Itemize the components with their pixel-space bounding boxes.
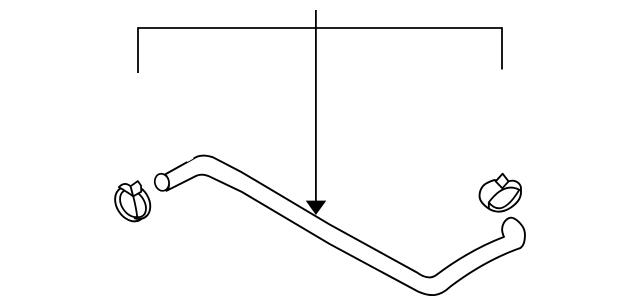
left clamp (spring hose clamp) — [109, 181, 152, 227]
left clamp left pinch tab — [119, 184, 133, 196]
left clamp right pinch tab — [131, 181, 142, 196]
right clamp band outline with pinch tab silhouette — [480, 174, 521, 212]
bracket left tick — [137, 27, 139, 73]
left clamp band front rim outer — [109, 181, 152, 227]
left clamp band gap mask — [134, 193, 151, 218]
right clamp pinch tab inner edges — [496, 181, 509, 188]
arrowhead — [306, 201, 327, 215]
highlight break on hose top line — [185, 155, 193, 162]
left clamp back rim inner arc — [138, 194, 146, 217]
right clamp band seam — [488, 202, 490, 209]
right clamp (spring hose clamp) — [480, 174, 521, 212]
bracket right tick — [501, 27, 503, 69]
left clamp band seam — [133, 196, 137, 218]
left clamp bore — [115, 186, 148, 222]
leader line (vertical) — [315, 10, 317, 202]
left clamp back rim outer arc — [134, 188, 150, 220]
hose body (Z-shaped tube with capped right end knob) — [165, 156, 525, 296]
hose open end ellipse (left) — [153, 172, 171, 192]
bracket horizontal line — [138, 27, 502, 29]
right clamp mouth opening — [489, 188, 520, 209]
